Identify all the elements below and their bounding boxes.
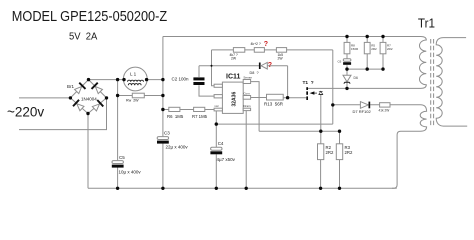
svg-text:R13 56R: R13 56R: [264, 101, 284, 106]
svg-text:T1 ?: T1 ?: [303, 80, 314, 86]
svg-text:2R2: 2R2: [326, 150, 334, 155]
svg-text:C5: C5: [119, 155, 125, 160]
wire AC line bottom: [19, 98, 107, 130]
svg-text:R7 1M5: R7 1M5: [192, 114, 208, 119]
snubber column 1 wire: [346, 37, 348, 70]
svg-text:2R2: 2R2: [345, 150, 353, 155]
svg-text:32A36: 32A36: [232, 92, 238, 107]
capacitor C5 branch wire: [117, 80, 119, 189]
svg-text:D8 ?: D8 ?: [250, 71, 259, 75]
resistor chain R middle: [254, 48, 264, 53]
svg-text:2R2: 2R2: [371, 47, 377, 51]
svg-text:Rw 2W: Rw 2W: [126, 98, 139, 102]
wire D8 to gate node vertical: [287, 66, 289, 98]
wire R13 to gate: [283, 97, 306, 99]
svg-text:22µ x 400v: 22µ x 400v: [166, 145, 189, 150]
svg-text:C3: C3: [164, 131, 170, 136]
resistor aux R 41k 2W: [380, 103, 390, 107]
transformer Tr1: [417, 16, 467, 131]
bridge rectifier Br1 1N4004: [70, 80, 106, 114]
capacitor C5: [112, 161, 124, 168]
svg-text:L 1: L 1: [130, 72, 137, 77]
resistor chain R left: [233, 48, 244, 53]
svg-text:2R2: 2R2: [387, 47, 393, 51]
pin 3 left of IC11 (vcc): [214, 108, 222, 111]
wire top bus: [163, 36, 417, 38]
wire sense pin to bus: [251, 82, 260, 132]
capacitor C4: [210, 147, 222, 154]
svg-text:4k+2 ?: 4k+2 ?: [251, 42, 261, 46]
svg-text:~220v: ~220v: [7, 105, 44, 120]
transformer core: [431, 39, 434, 126]
capacitor snubber C6: [343, 59, 351, 65]
pin 2 left of IC11: [214, 95, 222, 98]
svg-text:Br1: Br1: [67, 84, 75, 89]
transistor T1 MOSFET: [306, 87, 333, 144]
resistor parallel to L1 (Rw 2W): [118, 93, 163, 98]
capacitor C2 100n: [193, 66, 214, 96]
svg-text:C6: C6: [338, 60, 342, 64]
svg-text:Sense: Sense: [243, 76, 252, 80]
wire startup chain horizontal: [212, 49, 333, 51]
snubber link wire: [347, 68, 383, 70]
svg-text:Com: Com: [243, 92, 250, 96]
svg-text:vcc: vcc: [214, 104, 219, 108]
resistor R2 2R2: [318, 144, 324, 189]
wire feedback line y124: [216, 123, 332, 125]
wire chain end down to drain: [332, 50, 334, 124]
secondary winding: [436, 38, 467, 127]
svg-text:150R: 150R: [351, 47, 359, 51]
svg-text:Tr1: Tr1: [418, 16, 435, 31]
inductor L1 common-mode choke: [123, 67, 147, 91]
zener diode D6: [343, 69, 351, 88]
snubber column 3 wire: [382, 37, 384, 70]
svg-text:5V 2A: 5V 2A: [69, 31, 98, 43]
pin 2 right of IC11 (Com): [243, 96, 250, 100]
diode D8: [259, 62, 267, 69]
wire AC line top: [19, 97, 70, 99]
svg-text:C4: C4: [218, 141, 224, 146]
svg-text:1N4004: 1N4004: [81, 96, 97, 101]
resistor snubber R8: [344, 42, 350, 53]
wire IC pin3R down: [245, 111, 247, 189]
wire IC pin3L down with C4: [215, 111, 217, 188]
pin 1 left of IC11: [214, 84, 222, 87]
diode D7 RF102: [360, 102, 370, 109]
svg-text:2W: 2W: [278, 56, 284, 60]
svg-text:10µ x 400v: 10µ x 400v: [119, 170, 142, 175]
primary winding: [417, 37, 426, 89]
svg-text:2W: 2W: [231, 56, 237, 60]
resistor R6 1M5: [163, 107, 194, 111]
wire drain line to transformer: [333, 87, 418, 89]
svg-text:Drain: Drain: [243, 104, 251, 108]
resistor R13 56R: [267, 94, 284, 100]
wire aux winding return: [392, 131, 421, 188]
wire source sense bus y131: [259, 130, 339, 132]
resistor snubber R9: [364, 42, 370, 53]
svg-text:C2 100n: C2 100n: [172, 77, 190, 82]
wire D8 line: [199, 65, 288, 67]
wire bridge negative down: [87, 114, 89, 189]
pin 3 right of IC11 (Drain): [243, 108, 250, 110]
wire startup chain vertical: [212, 50, 215, 86]
resistor R3 2R2: [336, 131, 342, 188]
IC11 controller: [222, 74, 243, 114]
svg-text:?: ?: [268, 62, 272, 69]
wire main DC node vertical x163: [162, 37, 164, 189]
svg-text:4µ7 x50v: 4µ7 x50v: [217, 157, 236, 162]
svg-text:41k 2W: 41k 2W: [379, 109, 390, 113]
wire ground bus bottom: [88, 187, 397, 189]
svg-text:IC11: IC11: [226, 74, 241, 81]
svg-text:?: ?: [264, 41, 268, 48]
svg-text:R6 1M5: R6 1M5: [167, 114, 184, 119]
resistor R7 1M5: [194, 107, 215, 111]
wire bridge positive output to L1 node: [89, 79, 163, 81]
svg-text:D7 RF102: D7 RF102: [353, 109, 372, 114]
wire pin2R to R13: [251, 97, 267, 99]
aux winding: [420, 105, 426, 132]
capacitor C3: [157, 137, 169, 144]
resistor chain R right: [276, 48, 286, 53]
snubber column 2 wire: [366, 37, 368, 70]
pin 1 right of IC11 (Sense): [243, 80, 250, 84]
resistor snubber R10: [380, 42, 386, 53]
svg-text:MODEL GPE125-050200-Z: MODEL GPE125-050200-Z: [12, 8, 167, 24]
wire D7 line: [333, 104, 421, 106]
svg-text:D6: D6: [354, 76, 358, 80]
